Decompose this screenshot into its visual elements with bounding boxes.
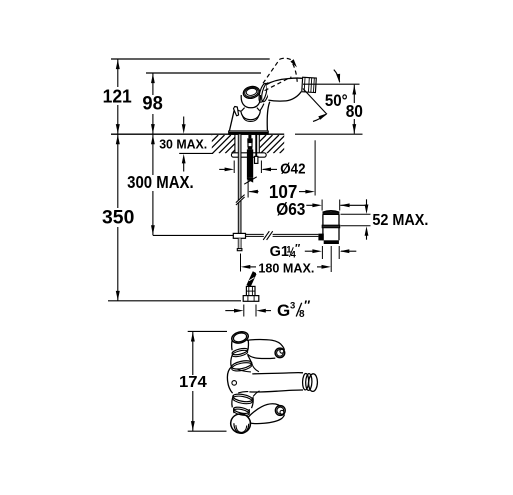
svg-text:52 MAX.: 52 MAX. <box>372 212 428 229</box>
svg-text:3: 3 <box>290 301 295 312</box>
svg-text:180 MAX.: 180 MAX. <box>258 260 314 275</box>
svg-text:″: ″ <box>304 297 310 312</box>
svg-text:350: 350 <box>102 206 134 228</box>
svg-text:174: 174 <box>179 374 207 391</box>
svg-text:50°: 50° <box>325 91 348 110</box>
svg-text:98: 98 <box>142 94 162 115</box>
svg-text:30 MAX.: 30 MAX. <box>159 137 207 152</box>
svg-text:80: 80 <box>346 101 363 121</box>
svg-text:Ø42: Ø42 <box>280 160 305 177</box>
svg-text:Ø63: Ø63 <box>276 199 305 219</box>
svg-text:121: 121 <box>103 85 132 106</box>
svg-text:300 MAX.: 300 MAX. <box>127 172 194 192</box>
svg-text:G: G <box>277 301 290 320</box>
svg-text:″: ″ <box>295 243 301 255</box>
